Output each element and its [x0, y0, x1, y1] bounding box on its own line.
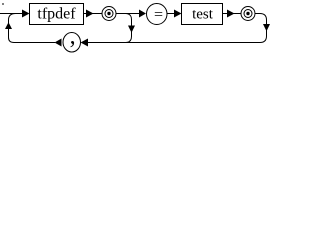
wire: right descent into loop: [255, 14, 267, 43]
svg-text:=: =: [154, 6, 163, 23]
bullseye 1: [102, 7, 116, 21]
arrow after comma oval (leftward): [55, 39, 62, 47]
svg-text:,: ,: [70, 24, 76, 50]
wire: test to bullseye 2: [223, 13, 242, 15]
svg-text:tfpdef: tfpdef: [37, 6, 76, 23]
wire: tfpdef to bullseye 1: [84, 13, 103, 15]
oval =: [147, 4, 168, 25]
wire: loop return left vertical with merge curve: [9, 14, 16, 38]
box tfpdef: [30, 4, 84, 25]
oval comma: [63, 33, 81, 53]
bullseye 2: [241, 7, 255, 21]
arrow up on left loop return: [5, 22, 12, 29]
svg-text:test: test: [192, 7, 214, 23]
arrow into test box: [174, 10, 182, 18]
background: [0, 0, 274, 60]
start dot: [2, 3, 4, 5]
arrow after test: [227, 10, 235, 18]
wire: middle branch down to loop: [126, 14, 132, 43]
wire: main entry line: [0, 13, 23, 15]
arrow into comma oval (leftward): [81, 39, 89, 47]
arrow down on right descent: [263, 24, 270, 31]
arrow after tfpdef: [86, 10, 94, 18]
arrow into tfpdef box: [22, 10, 30, 18]
wire: bottom loop to left corner: [9, 38, 56, 43]
box test: [182, 4, 223, 25]
wire: bottom loop line: [87, 42, 260, 44]
arrow into = oval: [139, 10, 146, 18]
wire: = oval to test box: [167, 13, 175, 15]
wire: bullseye 1 to = oval: [116, 13, 139, 15]
arrow down on middle branch: [128, 26, 135, 33]
